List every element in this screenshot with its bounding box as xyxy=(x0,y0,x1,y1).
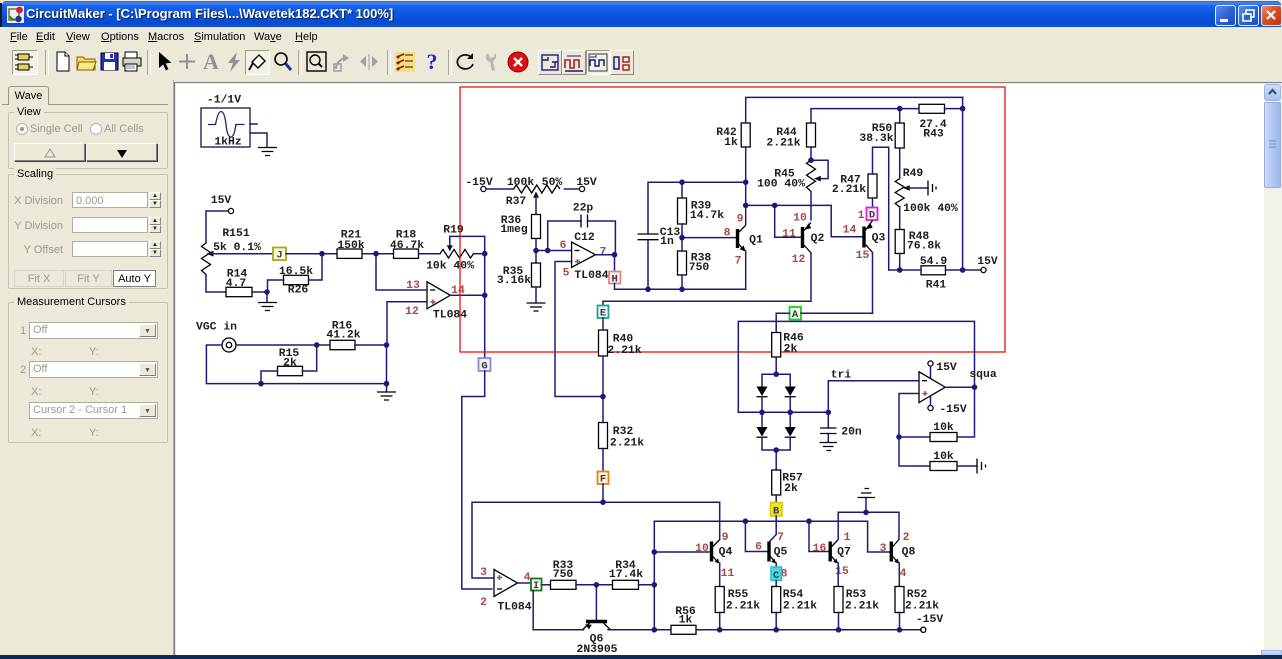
wire U2 output pin 7 xyxy=(596,254,615,256)
svg-text:A: A xyxy=(203,50,219,74)
wire -15V rail xyxy=(608,629,921,631)
wire R16 junction down to rail and ground xyxy=(386,345,388,392)
wire down to second 10k xyxy=(899,437,930,466)
svg-text:6: 6 xyxy=(560,240,567,252)
wire Q1 base xyxy=(682,237,736,239)
svg-text:15: 15 xyxy=(835,566,849,578)
wire R55 bottom xyxy=(719,613,721,630)
svg-text:2.21k: 2.21k xyxy=(610,438,644,450)
wire Q6 emitter to node I xyxy=(533,591,583,630)
junction xyxy=(373,251,379,257)
junction (C13 bottom) xyxy=(645,287,651,293)
power terminal 15V (R37 right) xyxy=(576,177,597,192)
wire Q8 emitter to R52 xyxy=(898,563,900,587)
svg-text:3: 3 xyxy=(880,543,887,555)
wire middle row to bottom diodes xyxy=(762,412,790,427)
svg-text:9: 9 xyxy=(722,532,729,544)
junction (Q7 base drop) xyxy=(806,518,812,524)
wire VGC to lower rail xyxy=(206,345,386,384)
wire Q1 collector xyxy=(745,182,747,224)
transistor Q8 xyxy=(880,532,916,580)
svg-text:8: 8 xyxy=(724,228,731,240)
svg-text:2.21k: 2.21k xyxy=(783,601,817,613)
transistor Q6 2N3905 xyxy=(576,622,617,657)
wire node F to feedback row xyxy=(602,484,604,502)
svg-text:A: A xyxy=(792,309,799,321)
wire Q7 emitter to R53 xyxy=(837,563,839,587)
svg-text:9: 9 xyxy=(737,214,744,226)
wire bridge to R57 xyxy=(775,450,777,470)
wire B column through bus to Q5 collector xyxy=(770,516,777,542)
wire Q1 emitter down xyxy=(745,251,747,289)
wire Q7 base drop xyxy=(809,521,829,551)
svg-text:10k: 10k xyxy=(933,451,954,463)
svg-text:100k: 100k xyxy=(507,177,535,189)
wire node J to R21 xyxy=(286,253,337,255)
resistor R18 46.7k xyxy=(390,230,424,259)
svg-text:TL084: TL084 xyxy=(433,310,467,322)
svg-text:R41: R41 xyxy=(926,280,947,292)
wire R15 right lead xyxy=(303,345,317,371)
svg-text:TL084: TL084 xyxy=(574,270,608,282)
wire R50 leads xyxy=(899,109,901,179)
wire R151 to R14 xyxy=(206,275,226,292)
junction (collector/base-dist) xyxy=(743,203,749,209)
wire R33 to R34 xyxy=(576,584,613,586)
wire junction to U2 inverting input xyxy=(536,250,572,252)
svg-text:15V: 15V xyxy=(211,195,232,207)
junction xyxy=(482,293,488,299)
schematic drawing xyxy=(176,84,1264,655)
svg-text:41.2k: 41.2k xyxy=(326,330,360,342)
svg-text:TL084: TL084 xyxy=(497,602,531,614)
svg-text:20n: 20n xyxy=(841,427,862,439)
Scaling group xyxy=(8,174,168,289)
svg-text:Q1: Q1 xyxy=(749,235,763,247)
resistor R60 10k xyxy=(930,422,957,442)
svg-text:6: 6 xyxy=(755,542,762,554)
wire R47 top to R41 row via right branch xyxy=(873,147,889,270)
wire junction to ground xyxy=(266,292,268,302)
wire 20n top lead xyxy=(827,412,829,428)
resistor R53 2.21k xyxy=(834,587,879,613)
svg-text:11: 11 xyxy=(721,568,735,580)
resistor R14 4.7 xyxy=(226,269,252,297)
power terminal -15V (U4) xyxy=(928,397,967,417)
svg-text:R43: R43 xyxy=(923,129,944,141)
potentiometer R49 100k 40% xyxy=(895,168,958,230)
ground (generator) xyxy=(258,148,277,156)
wire R26 right lead to node J row xyxy=(309,254,323,280)
diode D4 xyxy=(785,427,796,437)
svg-text:14: 14 xyxy=(843,225,857,237)
svg-text:11: 11 xyxy=(782,229,796,241)
junction (pin5 tap) xyxy=(600,394,606,400)
wire Q6 collector to rail xyxy=(610,629,655,631)
wire R21 to R18 xyxy=(362,253,394,255)
svg-text:1: 1 xyxy=(844,532,851,544)
wire generator output stub xyxy=(250,123,257,125)
op-amp U2 TL084 xyxy=(560,240,609,282)
svg-text:Q5: Q5 xyxy=(774,547,788,559)
wire node H to Q1 emitter row xyxy=(615,284,746,290)
junction xyxy=(319,251,325,257)
wire R37 to 15V xyxy=(565,188,580,190)
junction (squa) xyxy=(972,384,978,390)
window chrome xyxy=(0,3,2,27)
resistor R61 10k xyxy=(930,451,957,471)
wire ground to collectors xyxy=(838,498,899,540)
resistor R47 2.21k xyxy=(832,174,877,198)
svg-text:2k: 2k xyxy=(784,344,798,356)
svg-text:R26: R26 xyxy=(288,285,309,297)
wire C13 top lead xyxy=(648,182,746,234)
junction xyxy=(545,248,551,254)
power terminal 15V (right) xyxy=(977,256,998,273)
wire generator to ground xyxy=(250,133,267,147)
ground (R49 wiper, sideways) xyxy=(928,181,936,196)
resistor R21 150k xyxy=(337,230,365,259)
wire R39 leads xyxy=(681,182,683,237)
svg-text:-1/1V: -1/1V xyxy=(207,95,241,107)
junction (R43 right) xyxy=(960,106,966,112)
junction xyxy=(482,251,488,257)
diode D2 xyxy=(785,387,796,397)
wire squa to 10k feedback xyxy=(957,387,975,437)
wire C13 bottom lead xyxy=(647,240,649,290)
op-amp U4 comparator xyxy=(919,372,945,403)
wire R38 leads xyxy=(681,238,683,290)
wire Q4 base column xyxy=(653,521,655,630)
transistor Q1 xyxy=(724,214,763,268)
resistor R26 16.5k xyxy=(279,266,313,297)
wire output node down to node G xyxy=(484,254,486,358)
connector VGC in xyxy=(222,338,236,352)
svg-text:2k: 2k xyxy=(283,358,297,370)
resistor R42 1k xyxy=(716,123,750,149)
svg-text:1meg: 1meg xyxy=(500,224,528,236)
svg-text:54.9: 54.9 xyxy=(920,256,948,268)
wire U3 output to node I xyxy=(518,582,532,584)
junction (bridge top) xyxy=(773,371,779,377)
wire R16 right lead xyxy=(355,344,387,346)
wire R151 wiper to node J xyxy=(212,253,273,255)
wire 10k to ground xyxy=(957,465,977,467)
transistor Q2 xyxy=(782,213,824,267)
potentiometer R151 5k 0.1% xyxy=(202,228,262,275)
ground (10k, sideways) xyxy=(977,459,986,474)
svg-text:2.21k: 2.21k xyxy=(766,138,800,150)
resistor R36 1meg xyxy=(500,215,540,239)
svg-text:100k 40%: 100k 40% xyxy=(903,203,958,215)
svg-text:2N3905: 2N3905 xyxy=(576,644,617,655)
resistor R34 17.4k xyxy=(609,560,643,589)
svg-text:3: 3 xyxy=(480,567,487,579)
wire C12 left lead xyxy=(548,221,581,251)
wire R57 to node B xyxy=(775,495,777,503)
resistor R39 14.7k xyxy=(678,198,725,224)
Wave tab xyxy=(8,86,49,105)
wire Q2 base drop xyxy=(775,205,801,237)
wire output to node H xyxy=(614,255,616,272)
signal generator V1 -1/1V 1kHz xyxy=(201,95,250,149)
svg-text:7: 7 xyxy=(777,532,784,544)
svg-text:Q3: Q3 xyxy=(872,233,886,245)
junction (Q6 base tap) xyxy=(594,582,600,588)
wire R41 row xyxy=(889,269,981,271)
junction xyxy=(759,410,765,416)
wire R34 right lead xyxy=(639,584,655,586)
wire R32 bottom to node F xyxy=(602,449,604,472)
junction xyxy=(897,627,903,633)
svg-text:R37: R37 xyxy=(506,196,527,208)
wire R44 bottom xyxy=(810,147,812,160)
wire feedback row to U3 pin3 and Q4 collector xyxy=(472,502,720,578)
wire bridge middle row xyxy=(738,411,828,413)
svg-text:2.21k: 2.21k xyxy=(832,184,866,196)
wire R37 wiper to R36 xyxy=(535,197,537,215)
svg-text:I: I xyxy=(533,580,539,592)
node D xyxy=(858,208,878,223)
wire VGC to R16 xyxy=(236,344,330,346)
svg-text:1n: 1n xyxy=(660,236,674,248)
selection rectangle xyxy=(460,87,1005,352)
ground (R14/R26) xyxy=(258,303,277,311)
wire R52 bottom xyxy=(899,613,901,630)
resistor R38 750 xyxy=(678,251,712,275)
wire R36 to junction xyxy=(535,239,537,251)
wire Q2 collector down to E row xyxy=(603,253,811,306)
junction (Q5 base drop) xyxy=(743,518,749,524)
svg-text:-15V: -15V xyxy=(916,614,944,626)
ground (VGC rail) xyxy=(377,392,396,400)
op-amp U3 TL084 xyxy=(480,567,532,614)
svg-text:1kHz: 1kHz xyxy=(214,137,241,149)
svg-text:15V: 15V xyxy=(977,256,998,268)
resistor R35 3.16k xyxy=(497,263,541,287)
svg-text:17.4k: 17.4k xyxy=(609,569,643,581)
junction xyxy=(612,252,618,258)
svg-text:R19: R19 xyxy=(443,225,464,237)
svg-text:D: D xyxy=(869,210,875,222)
resistor R15 2k xyxy=(278,348,303,376)
power terminal 15V (left) xyxy=(211,195,234,214)
resistor R33 750 xyxy=(551,560,577,589)
resistor R48 76.8k xyxy=(895,230,941,254)
wire R42 bottom xyxy=(745,147,747,182)
capacitor C14 20n xyxy=(820,427,862,439)
junction (R50 top) xyxy=(897,106,903,112)
wire R43 row xyxy=(900,108,963,110)
wire Q4 emitter to R55 xyxy=(719,563,721,587)
capacitor C13 1n xyxy=(638,227,681,248)
junction xyxy=(773,627,779,633)
svg-text:2k: 2k xyxy=(784,483,798,495)
node A xyxy=(790,307,802,321)
resistor R16 41.2k xyxy=(326,321,360,350)
svg-text:Q8: Q8 xyxy=(902,547,916,559)
junction (R38 bottom) xyxy=(679,287,685,293)
svg-text:tri: tri xyxy=(831,370,852,382)
junction xyxy=(717,627,723,633)
svg-text:R151: R151 xyxy=(222,228,250,240)
svg-text:15: 15 xyxy=(856,250,870,262)
junction (R33/R34 tap) xyxy=(652,582,658,588)
junction (R39 top) xyxy=(679,179,685,185)
junction (bridge bottom) xyxy=(773,447,779,453)
transistor Q5 xyxy=(755,532,788,581)
junction (R42 bottom tap) xyxy=(743,179,749,185)
svg-text:R32: R32 xyxy=(613,426,634,438)
junction xyxy=(600,499,606,505)
junction xyxy=(314,342,320,348)
svg-text:Q7: Q7 xyxy=(837,547,851,559)
wire Q3 collector down to A row xyxy=(872,253,874,314)
wire R40 bottom xyxy=(602,356,604,397)
svg-text:16: 16 xyxy=(813,543,827,555)
svg-text:5: 5 xyxy=(563,268,570,280)
junction (R41 right) xyxy=(960,267,966,273)
junction xyxy=(384,381,390,387)
svg-text:VGC in: VGC in xyxy=(196,322,237,334)
svg-text:2: 2 xyxy=(480,597,487,609)
svg-text:150k: 150k xyxy=(337,240,365,252)
resistor R32 2.21k xyxy=(599,423,645,450)
svg-text:22p: 22p xyxy=(573,203,594,215)
svg-text:7: 7 xyxy=(600,247,607,259)
node C xyxy=(771,567,782,582)
svg-text:12: 12 xyxy=(792,254,806,266)
node F xyxy=(598,472,609,486)
svg-text:100 40%: 100 40% xyxy=(757,179,805,191)
wire R35 leads xyxy=(535,251,537,303)
svg-text:R55: R55 xyxy=(728,589,749,601)
wire node C to R54 xyxy=(775,581,777,587)
potentiometer R45 100 40% xyxy=(757,160,828,220)
wire R19 right lead xyxy=(474,253,485,255)
wire R14 to junction xyxy=(252,291,267,293)
wire R19 wiper to output node xyxy=(450,236,485,253)
junction xyxy=(772,203,778,209)
wire R18 to R19 xyxy=(419,253,441,255)
wire E to R40 xyxy=(602,318,604,330)
resistor R46 2k xyxy=(772,333,804,358)
svg-text:squa: squa xyxy=(969,369,997,381)
wire bridge top node xyxy=(762,374,790,386)
svg-text:?: ? xyxy=(427,50,438,74)
wire U2 noninverting input pin 5 xyxy=(555,262,603,397)
resistor R50 38.3k xyxy=(859,123,904,148)
junction xyxy=(384,342,390,348)
junction xyxy=(826,410,832,416)
resistor R55 2.21k xyxy=(715,587,760,613)
wire U1 output pin 14 xyxy=(450,294,484,296)
wire R53 bottom xyxy=(838,613,840,630)
wire comparator feedback loop xyxy=(738,321,974,412)
svg-text:10: 10 xyxy=(695,543,709,555)
diode D1 xyxy=(757,387,768,397)
svg-text:750: 750 xyxy=(689,262,710,274)
svg-text:R54: R54 xyxy=(783,589,804,601)
node I xyxy=(531,579,542,593)
transistor Q7 xyxy=(813,532,851,578)
wire 20n bottom lead xyxy=(827,434,829,443)
svg-text:1k: 1k xyxy=(679,615,693,627)
svg-text:46.7k: 46.7k xyxy=(390,240,424,252)
resistor R40 2.21k xyxy=(599,330,642,357)
wire R26 left lead xyxy=(268,280,284,292)
View group xyxy=(8,112,168,169)
wire R32 top xyxy=(602,397,604,423)
wire diodes to middle row xyxy=(762,397,790,413)
wire R54 bottom xyxy=(775,613,777,630)
svg-text:R40: R40 xyxy=(613,334,634,346)
svg-text:14.7k: 14.7k xyxy=(690,210,724,222)
junction (R39/R38/base) xyxy=(679,235,685,241)
svg-text:750: 750 xyxy=(553,569,574,581)
resistor R44 2.21k xyxy=(766,123,815,150)
resistor R57 2k xyxy=(772,470,803,495)
junction xyxy=(533,248,539,254)
wire bridge bottom node xyxy=(762,437,790,450)
capacitor C12 22p xyxy=(573,203,595,245)
ground (R35) xyxy=(527,303,546,311)
resistor R52 2.21k xyxy=(895,587,939,613)
svg-text:J: J xyxy=(276,250,282,262)
svg-text:R52: R52 xyxy=(907,589,928,601)
wire Q5 base drop xyxy=(745,521,767,551)
potentiometer R37 100k 50% xyxy=(506,177,563,208)
wire Q4 base xyxy=(654,551,710,553)
svg-text:R53: R53 xyxy=(846,589,867,601)
node B xyxy=(771,503,783,518)
svg-text:10k: 10k xyxy=(933,422,954,434)
junction xyxy=(896,434,902,440)
svg-text:-15V: -15V xyxy=(465,177,493,189)
svg-text:2: 2 xyxy=(903,532,910,544)
svg-text:4: 4 xyxy=(524,572,531,584)
node H xyxy=(609,272,621,286)
Measurement Cursors group xyxy=(8,302,168,443)
op-amp U1 TL084 xyxy=(405,280,467,322)
svg-text:-15V: -15V xyxy=(939,404,967,416)
potentiometer R19 10k 40% xyxy=(426,225,474,273)
junction (rail tap) xyxy=(652,627,658,633)
svg-text:2.21k: 2.21k xyxy=(726,601,760,613)
ground (20n) xyxy=(820,443,838,451)
wire 10k to U4 + input xyxy=(899,394,930,438)
wire base bus xyxy=(654,521,890,552)
svg-text:16.5k: 16.5k xyxy=(279,266,313,278)
wire node I to R33 xyxy=(542,584,551,586)
resistor R54 2.21k xyxy=(772,587,818,613)
svg-text:5k 0.1%: 5k 0.1% xyxy=(213,242,261,254)
svg-text:2.21k: 2.21k xyxy=(607,345,641,357)
wire Q6 base drop xyxy=(595,585,597,620)
junction (ground tap) xyxy=(863,510,869,516)
power terminal -15V (rail) xyxy=(916,614,944,632)
wire U4 output xyxy=(945,386,974,388)
svg-text:10: 10 xyxy=(793,213,807,225)
resistor R56 1k xyxy=(671,606,696,634)
node E xyxy=(598,306,609,320)
junction xyxy=(258,381,264,387)
wire right rail down to R41 row xyxy=(962,97,964,270)
wire U1 inverting input pin 13 xyxy=(376,254,427,290)
node G xyxy=(479,358,491,373)
svg-text:1: 1 xyxy=(858,210,865,222)
power terminal -15V (R37 left) xyxy=(465,177,493,192)
